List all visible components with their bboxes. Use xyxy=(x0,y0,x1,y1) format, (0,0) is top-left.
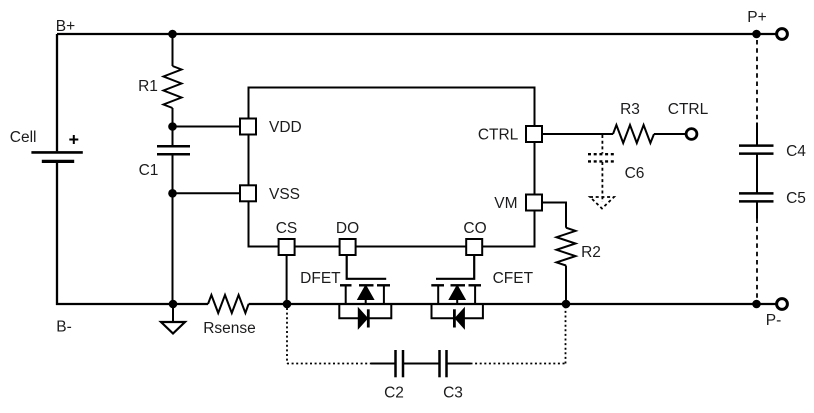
substrate arrow xyxy=(359,286,373,299)
pin CO xyxy=(466,239,482,255)
source contact xyxy=(345,285,347,304)
drain contact xyxy=(474,285,476,304)
pin VM xyxy=(526,195,542,211)
source contact xyxy=(437,285,439,304)
svg-text:C3: C3 xyxy=(443,385,463,402)
resistor R2 xyxy=(557,228,576,266)
ground xyxy=(161,322,185,334)
pin CTRL xyxy=(526,126,542,142)
pin DO xyxy=(340,239,356,255)
body diode D1 xyxy=(359,309,367,327)
wire C1 to bottom rail xyxy=(172,154,174,304)
svg-text:C4: C4 xyxy=(786,143,806,160)
dashed link CS junction down (left corner of C2C3 net) xyxy=(286,308,288,364)
wire top rail B+ to P+ xyxy=(57,33,776,35)
junction dot CS/Rsense xyxy=(283,300,292,309)
resistor Rsense xyxy=(208,295,249,313)
svg-text:VM: VM xyxy=(494,195,517,212)
body diode loop xyxy=(339,304,391,318)
wire left rail lower (battery to B-) xyxy=(56,161,58,305)
battery Cell xyxy=(31,152,82,161)
svg-text:DFET: DFET xyxy=(300,270,341,287)
substrate arrow xyxy=(450,286,464,299)
svg-text:B-: B- xyxy=(56,319,72,336)
gate wire from DO xyxy=(347,255,387,279)
transistor Q1 DFET xyxy=(339,255,391,328)
wire CS to bottom rail xyxy=(286,255,288,304)
wire R1 to C1 xyxy=(172,108,174,146)
wire C3 right lead xyxy=(447,363,471,365)
wire bottom rail B- to P- xyxy=(56,303,208,305)
IC body U1 xyxy=(249,88,535,247)
wire C4 to C5 xyxy=(756,154,758,194)
junction dot B+/R1 xyxy=(168,30,177,39)
wire CTRL pin to R3 xyxy=(542,133,613,135)
resistor R3 xyxy=(613,125,654,143)
svg-text:CFET: CFET xyxy=(493,270,534,287)
svg-text:Rsense: Rsense xyxy=(203,320,256,337)
dashed link R2 junction down (right corner of C2C3 net) xyxy=(565,308,567,364)
svg-text:CTRL: CTRL xyxy=(668,101,709,118)
junction dot ground xyxy=(169,300,178,309)
junction dot VDD tap xyxy=(168,122,177,131)
dashed link C5 down to P- xyxy=(756,219,758,301)
ground arrow of C6 (dashed) xyxy=(590,197,614,209)
terminal P+ xyxy=(777,29,788,40)
wire VDD tap xyxy=(173,126,241,128)
junction dot P- xyxy=(752,300,761,309)
terminal CTRL xyxy=(686,129,697,140)
channel dashes xyxy=(340,284,390,286)
capacitor C1 xyxy=(157,146,190,154)
svg-text:CS: CS xyxy=(276,220,298,237)
capacitor C4 xyxy=(739,146,774,154)
pin VDD xyxy=(240,119,256,135)
svg-text:Cell: Cell xyxy=(10,129,37,146)
svg-text:C1: C1 xyxy=(139,162,159,179)
drain contact xyxy=(383,285,385,304)
dashed link left horizontal of C2C3 net xyxy=(287,363,371,365)
wire R3 to CTRL terminal xyxy=(654,133,686,135)
capacitor C6 (dashed) xyxy=(588,135,616,202)
dashed link right horizontal of C2C3 net xyxy=(471,363,566,365)
svg-text:CTRL: CTRL xyxy=(478,127,519,144)
svg-text:CO: CO xyxy=(463,220,486,237)
svg-text:R3: R3 xyxy=(620,101,640,118)
body diode D2 xyxy=(456,309,464,327)
svg-text:P-: P- xyxy=(766,312,782,329)
wire C4 top lead xyxy=(756,123,758,146)
transistor Q2 CFET xyxy=(431,255,483,328)
wire VM pin to R2 corner xyxy=(542,203,566,228)
svg-text:C5: C5 xyxy=(786,190,806,207)
pin VSS xyxy=(240,185,256,201)
gate wire from CO xyxy=(436,255,474,279)
svg-text:C6: C6 xyxy=(625,165,645,182)
capacitor C3 xyxy=(440,350,447,377)
wire C5 bottom lead xyxy=(756,201,758,218)
svg-text:B+: B+ xyxy=(56,18,75,35)
wire C2 left lead xyxy=(371,363,396,365)
dashed link P+ down to C4 xyxy=(756,40,758,123)
wire VSS tap xyxy=(173,192,241,194)
svg-text:R1: R1 xyxy=(138,78,158,95)
terminal P- xyxy=(777,299,788,310)
wire left rail upper (B+ to battery) xyxy=(56,34,58,151)
svg-text:DO: DO xyxy=(336,220,359,237)
svg-text:VSS: VSS xyxy=(269,186,300,203)
body diode loop xyxy=(432,304,483,318)
svg-text:C2: C2 xyxy=(384,385,404,402)
junction dot VSS tap xyxy=(168,189,177,198)
wire ground stem xyxy=(172,304,174,322)
pin CS xyxy=(279,239,295,255)
channel dashes xyxy=(431,284,481,286)
wire C2 to C3 xyxy=(403,363,440,365)
junction dot P+ xyxy=(752,30,761,39)
wire R1 column top xyxy=(172,34,174,66)
capacitor C5 xyxy=(739,193,774,201)
wire bottom rail Rsense to P- xyxy=(249,303,776,305)
resistor R1 xyxy=(164,66,182,108)
capacitor C2 xyxy=(396,350,404,377)
wire R2 to bottom rail xyxy=(565,266,567,305)
svg-text:R2: R2 xyxy=(581,244,601,261)
battery plus sign xyxy=(69,135,78,144)
svg-text:VDD: VDD xyxy=(269,119,302,136)
junction dot R2/bottom xyxy=(562,300,571,309)
svg-text:P+: P+ xyxy=(747,9,766,26)
